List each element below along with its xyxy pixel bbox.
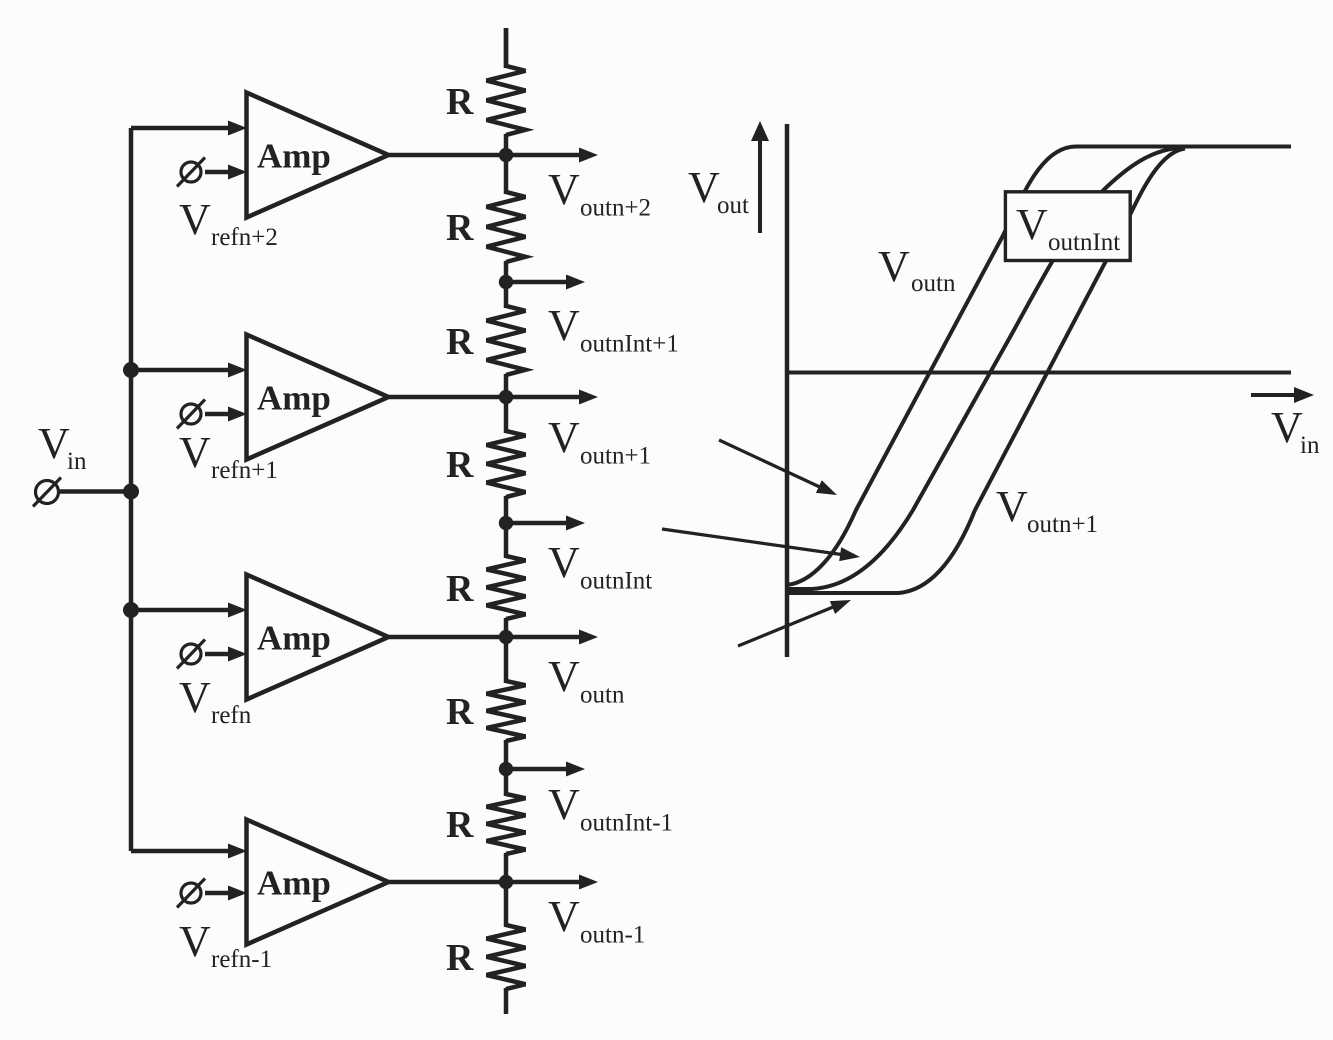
svg-text:V: V — [996, 482, 1028, 531]
wire: amp U3 output to ladder node — [389, 635, 581, 640]
junction dot on bus at amp U2 tap — [123, 362, 139, 378]
arrowhead on amp U3 output — [579, 630, 598, 645]
resistor R3 — [446, 306, 526, 375]
wire: interpolated tap arrow outnInt+1 — [506, 280, 568, 285]
wire: bus to amp U4 input — [131, 849, 229, 854]
svg-text:V: V — [548, 413, 580, 462]
wire: bus to amp U3 input — [131, 608, 229, 613]
arrowhead on tap outnInt+1 — [566, 275, 585, 290]
svg-text:R: R — [446, 321, 474, 363]
svg-text:V: V — [179, 428, 211, 477]
svg-text:V: V — [548, 892, 580, 941]
graph Vout axis arrow — [751, 121, 769, 233]
svg-text:in: in — [67, 448, 87, 475]
svg-text:outn+2: outn+2 — [580, 195, 651, 222]
svg-text:V: V — [878, 242, 910, 291]
arrowhead into amp U4 signal input — [228, 844, 247, 859]
junction dot on bus at Vin entry — [123, 484, 139, 500]
svg-text:Amp: Amp — [257, 864, 331, 903]
resistor R5 — [446, 556, 526, 619]
arrowhead into amp U1 signal input — [228, 121, 247, 136]
op-amp U3 (Amp) — [247, 575, 389, 700]
wire: amp U4 output to ladder node — [389, 880, 581, 885]
svg-text:refn+1: refn+1 — [211, 457, 278, 484]
phi clock symbol for amp U2 — [177, 400, 205, 429]
svg-text:V: V — [179, 195, 211, 244]
wire: ladder segment below R4 — [504, 496, 509, 523]
wire: ladder segment above R5 — [504, 523, 509, 558]
pointer arrow to curve VoutnInt knee — [662, 529, 860, 561]
svg-text:refn+2: refn+2 — [211, 224, 278, 251]
junction dot on bus at amp U3 tap — [123, 602, 139, 618]
svg-text:outnInt: outnInt — [580, 568, 652, 595]
wire: ladder segment below R8 — [504, 988, 509, 1014]
node Vout tap outnInt-1 junction dot — [499, 762, 513, 776]
svg-text:R: R — [446, 937, 474, 979]
svg-text:R: R — [446, 444, 474, 486]
wire: amp U1 output to ladder node — [389, 153, 581, 158]
svg-text:V: V — [38, 419, 70, 468]
svg-text:Amp: Amp — [257, 379, 331, 418]
phi clock symbol for amp U4 — [177, 879, 205, 908]
svg-text:outn: outn — [580, 682, 625, 709]
node Vout tap outn-1 junction dot — [499, 875, 513, 889]
wire: Vin vertical bus with top/bottom corners to amp inputs — [129, 128, 134, 851]
svg-text:R: R — [446, 804, 474, 846]
pointer arrow to curve Voutn+1 knee — [738, 600, 851, 646]
node Vout tap outn+1 junction dot — [499, 390, 513, 404]
wire: Vin phi to bus — [59, 489, 131, 494]
svg-text:outn: outn — [911, 270, 956, 297]
wire: phi to amp U3 clock input — [205, 652, 229, 657]
arrowhead on amp U1 output — [579, 148, 598, 163]
graph horizontal axis line — [787, 371, 1291, 375]
wire: ladder segment below R7 — [504, 853, 509, 882]
svg-text:outnInt: outnInt — [1048, 229, 1120, 256]
arrowhead on tap outnInt — [566, 516, 585, 531]
graph Vin axis arrow — [1251, 387, 1314, 403]
svg-text:V: V — [688, 163, 720, 212]
op-amp U1 (Amp) — [247, 93, 389, 218]
resistor R1 — [446, 66, 526, 135]
resistor R8 — [446, 925, 526, 989]
svg-text:V: V — [548, 780, 580, 829]
svg-text:Amp: Amp — [257, 619, 331, 658]
wire: ladder segment above R8 — [504, 882, 509, 927]
wire: ladder top stub — [504, 28, 509, 67]
wire: ladder segment below R2 — [504, 261, 509, 282]
wire: phi to amp U2 clock input — [205, 412, 229, 417]
arrowhead into amp U2 clock input — [228, 407, 247, 422]
wire: ladder segment below R1 — [504, 134, 509, 155]
arrowhead into amp U3 clock input — [228, 647, 247, 662]
arrowhead into amp U3 signal input — [228, 603, 247, 618]
resistor R6 — [446, 681, 526, 741]
wire: ladder segment above R3 — [504, 282, 509, 308]
svg-text:V: V — [548, 652, 580, 701]
resistor R4 — [446, 431, 526, 497]
curve VoutnInt transfer characteristic — [787, 148, 1183, 590]
wire: ladder segment above R2 — [504, 155, 509, 194]
wire: ladder segment above R6 — [504, 637, 509, 683]
svg-text:out: out — [717, 192, 749, 219]
svg-text:outnInt-1: outnInt-1 — [580, 810, 673, 837]
wire: ladder segment below R6 — [504, 740, 509, 769]
wire: ladder segment above R7 — [504, 769, 509, 796]
svg-text:V: V — [1271, 403, 1303, 452]
svg-text:V: V — [548, 538, 580, 587]
wire: ladder segment above R4 — [504, 397, 509, 433]
wire: phi to amp U1 clock input — [205, 170, 229, 175]
node Vout tap outnInt junction dot — [499, 516, 513, 530]
wire: bus to amp U2 input — [131, 368, 229, 373]
resistor R7 — [446, 794, 526, 854]
svg-text:V: V — [548, 165, 580, 214]
wire: ladder segment below R3 — [504, 374, 509, 397]
wire: ladder segment below R5 — [504, 618, 509, 637]
pointer arrow to curve Voutn knee — [719, 440, 837, 495]
svg-text:in: in — [1300, 432, 1320, 459]
graph vertical axis (Vout axis) — [785, 124, 790, 657]
node Vout tap outnInt+1 junction dot — [499, 275, 513, 289]
arrowhead into amp U1 clock input — [228, 165, 247, 180]
svg-text:outnInt+1: outnInt+1 — [580, 331, 679, 358]
node Vout tap outn+2 junction dot — [499, 148, 513, 162]
node Vout tap outn junction dot — [499, 630, 513, 644]
svg-text:R: R — [446, 207, 474, 249]
arrowhead into amp U4 clock input — [228, 886, 247, 901]
svg-text:Amp: Amp — [257, 137, 331, 176]
svg-text:refn-1: refn-1 — [211, 946, 272, 973]
svg-text:outn-1: outn-1 — [580, 922, 645, 949]
svg-text:R: R — [446, 691, 474, 733]
phi clock symbol for amp U3 — [177, 640, 205, 669]
wire: amp U2 output to ladder node — [389, 395, 581, 400]
resistor R2 — [446, 192, 526, 262]
svg-text:outn+1: outn+1 — [1027, 511, 1098, 538]
wire: phi to amp U4 clock input — [205, 891, 229, 896]
wire: ladder segment above R1 — [504, 28, 509, 68]
svg-text:outn+1: outn+1 — [580, 443, 651, 470]
svg-text:V: V — [179, 917, 211, 966]
svg-text:V: V — [548, 301, 580, 350]
wire: interpolated tap arrow outnInt-1 — [506, 767, 568, 772]
arrowhead on amp U4 output — [579, 875, 598, 890]
arrowhead on amp U2 output — [579, 390, 598, 405]
wire: bus to amp U1 input — [131, 126, 229, 131]
svg-text:V: V — [1016, 200, 1048, 249]
op-amp U4 (Amp) — [247, 820, 389, 945]
arrowhead into amp U2 signal input — [228, 363, 247, 378]
boxed label VoutnInt on graph — [1005, 192, 1130, 261]
wire: interpolated tap arrow outnInt — [506, 521, 568, 526]
op-amp U2 (Amp) — [247, 335, 389, 460]
curve Voutn transfer characteristic — [787, 147, 1291, 586]
phi clock symbol for amp U1 — [177, 158, 205, 187]
svg-text:refn: refn — [211, 702, 252, 729]
curve Voutn+1 transfer characteristic — [787, 149, 1185, 594]
svg-text:R: R — [446, 81, 474, 123]
phi clock symbol at Vin input — [33, 478, 61, 507]
svg-text:R: R — [446, 568, 474, 610]
arrowhead on tap outnInt-1 — [566, 762, 585, 777]
svg-text:V: V — [179, 673, 211, 722]
